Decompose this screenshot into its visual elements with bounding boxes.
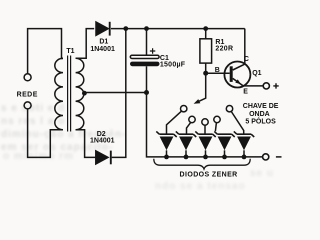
node Z4 on common rail [222, 155, 227, 160]
svg-text:1N4001: 1N4001 [90, 138, 115, 145]
wire contact 5 to zener Z5 [231, 112, 243, 135]
svg-text:1500µF: 1500µF [160, 62, 186, 69]
node junction R1 on positive rail [203, 26, 208, 31]
faint print bleed-through background text [1, 103, 65, 114]
node Z2 on common rail [184, 155, 189, 160]
wire REDE bottom to transformer primary bottom [28, 109, 63, 157]
resistor R1 body [200, 39, 212, 63]
wire C1 positive lead [146, 29, 148, 56]
node Z3 on common rail [203, 155, 208, 160]
plus sign of C1 [150, 48, 155, 53]
transformer T1 secondary winding [76, 58, 84, 130]
switch contact 1 [181, 106, 187, 112]
diode D2 [96, 151, 108, 164]
svg-text:5 PÓLOS: 5 PÓLOS [245, 116, 276, 125]
terminal REDE bottom [24, 102, 31, 109]
zener diode Z4 [214, 131, 234, 157]
zener diode Z3 [195, 131, 215, 157]
wire collector to positive rail [244, 29, 246, 65]
node Z5 on common rail [242, 155, 247, 160]
wire positive rail D1 cathode to collector corner [111, 28, 245, 30]
svg-text:E: E [243, 88, 248, 95]
zener diode Z5 [234, 131, 254, 157]
svg-text:1N4001: 1N4001 [90, 46, 115, 53]
diode D1 [96, 22, 108, 35]
wire contact 2 to zener Z2 [187, 122, 191, 134]
zener diode Z2 [176, 131, 196, 157]
terminal output negative [263, 154, 269, 160]
wire contact 1 to zener Z1 [167, 111, 182, 134]
svg-text:REDE: REDE [17, 92, 38, 99]
transformer T1 core [68, 56, 71, 132]
switch contact 4 [214, 116, 220, 122]
wire center tap to C1 junction [85, 92, 147, 94]
wire base node to Q1 base [206, 72, 230, 74]
wire contact 3 to zener Z3 [204, 125, 206, 134]
capacitor C1 bottom plate [130, 62, 160, 67]
capacitor C1 top plate [130, 55, 159, 58]
switch contact 2 [189, 116, 195, 122]
switch contact 5 [226, 106, 232, 112]
node junction center tap / C1 negative [144, 90, 149, 95]
svg-text:DIODOS ZENER: DIODOS ZENER [180, 171, 238, 178]
brace under zener diodes [154, 159, 250, 169]
wire emitter to positive output terminal [243, 85, 263, 87]
switch wiper arrowhead [194, 99, 201, 104]
transistor Q1 collector stroke [233, 64, 245, 70]
switch contact 3 [202, 119, 208, 125]
node junction C1 on positive rail [144, 26, 149, 31]
svg-text:C: C [244, 56, 249, 63]
svg-text:Q1: Q1 [252, 70, 261, 77]
transistor Q1 base bar [230, 66, 233, 82]
resistor R1 lead from rail [205, 29, 207, 39]
wire contact 4 to zener Z4 [215, 123, 216, 132]
terminal REDE top [24, 74, 31, 81]
svg-text:T1: T1 [66, 48, 74, 55]
node Z1 on common rail [164, 155, 169, 160]
wire secondary bottom to D2 anode [76, 130, 96, 158]
svg-text:B: B [215, 67, 220, 74]
transistor Q1 emitter arrow [235, 79, 241, 84]
svg-text:220R: 220R [215, 45, 233, 52]
transistor Q1 emitter stroke [233, 78, 244, 86]
resistor R1 lead to base node [205, 63, 207, 73]
plus sign output [273, 83, 278, 88]
switch wiper arm from base node [198, 73, 206, 102]
wire D2 cathode up to positive rail [112, 29, 126, 158]
wire secondary top to D1 anode [76, 29, 95, 59]
terminal output positive [263, 83, 269, 89]
svg-text:D1: D1 [99, 38, 108, 45]
zener diode Z1 [156, 131, 176, 157]
wire C1 negative lead down to common rail [147, 66, 264, 157]
transformer T1 primary winding [55, 58, 63, 130]
transistor Q1 body circle [224, 62, 250, 88]
svg-text:ONDA: ONDA [249, 111, 270, 118]
minus sign output [276, 156, 282, 158]
node base junction [203, 71, 208, 76]
node junction D2 riser on positive rail [123, 26, 128, 31]
svg-text:CHAVE DE: CHAVE DE [243, 103, 279, 110]
wire REDE top to transformer primary top [28, 29, 63, 74]
node center tap on secondary [82, 91, 87, 96]
